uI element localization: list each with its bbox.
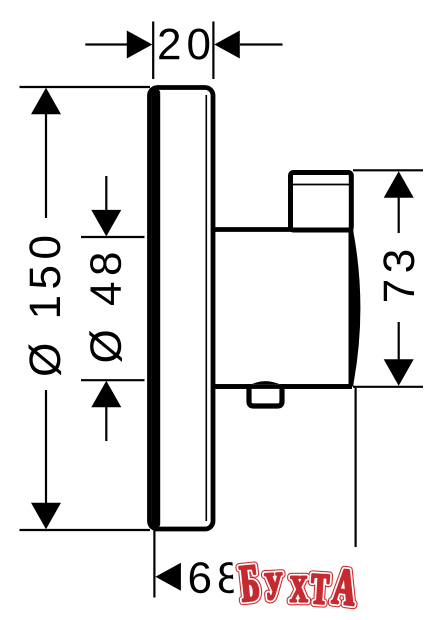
dimension Ø150 (left) (20, 87, 151, 530)
dimension 73 (right) (353, 170, 423, 386)
cartridge on top of body (291, 173, 352, 231)
watermark logo BUHTA (233, 547, 362, 609)
valve body (213, 230, 358, 387)
bottom tab (213, 383, 352, 406)
dimension 68 (bottom) (154, 387, 355, 598)
dimension 20 (top) (85, 22, 282, 80)
dimension Ø48 (inner left) (81, 176, 145, 441)
plate (escutcheon side view) (150, 88, 214, 530)
